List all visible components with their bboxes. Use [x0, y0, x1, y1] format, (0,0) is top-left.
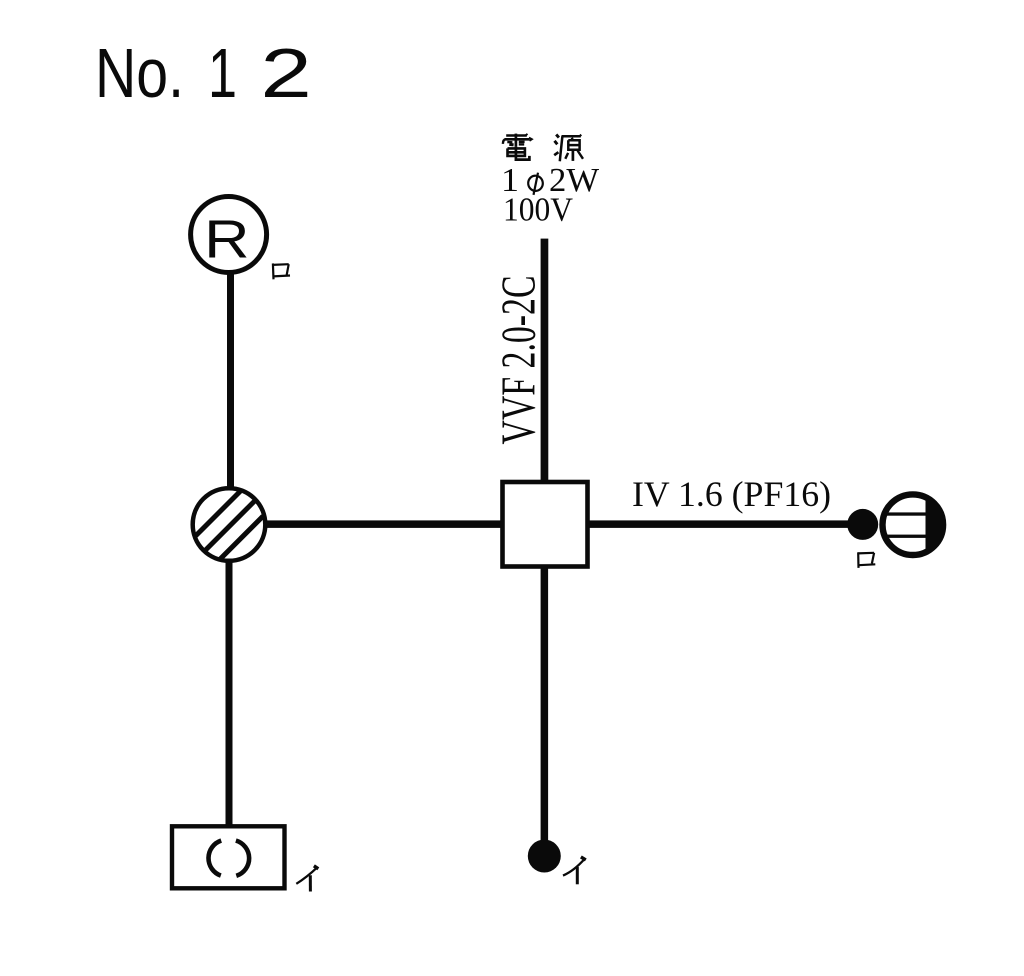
wire: junction box down to ceiling rosette	[226, 560, 233, 826]
label ロ for switch	[858, 552, 875, 568]
svg-text:100V: 100V	[503, 192, 573, 229]
wire: power source down to outlet box	[541, 239, 549, 481]
wire: junction box to outlet box (horizontal)	[265, 520, 502, 528]
label ロ for receptacle	[273, 263, 290, 279]
svg-text:VVF 2.0-2C: VVF 2.0-2C	[491, 276, 546, 445]
wire: outlet box to switch ロ (horizontal)	[587, 520, 849, 528]
title No.12	[95, 34, 312, 112]
wall outlet (circle, right half filled, double bars)	[882, 494, 943, 555]
svg-text:IV 1.6 (PF16): IV 1.6 (PF16)	[632, 474, 831, 514]
switch ロ (small filled circle)	[847, 509, 878, 540]
power source kanji 源	[554, 135, 583, 162]
label イ for switch イ	[563, 857, 586, 884]
lamp receptacle R (circle)	[191, 197, 267, 273]
svg-text:1: 1	[208, 34, 237, 112]
rosette arcs ( )	[208, 841, 249, 876]
power source kanji 電	[503, 134, 532, 160]
phi symbol	[527, 173, 544, 195]
junction box (VVF, hatched circle)	[193, 469, 266, 585]
outlet box (square)	[503, 482, 588, 567]
label イ for rosette	[296, 866, 318, 892]
power source text 1phi2W	[501, 162, 600, 199]
wire: outlet box down to switch イ	[541, 567, 549, 842]
wire: lamp receptacle R down to junction box	[227, 273, 234, 488]
svg-text:2: 2	[260, 34, 312, 112]
svg-text:No.: No.	[95, 34, 184, 112]
switch イ (filled circle)	[528, 840, 561, 873]
ceiling rosette イ (rectangle)	[172, 826, 285, 888]
svg-text:R: R	[204, 210, 249, 270]
